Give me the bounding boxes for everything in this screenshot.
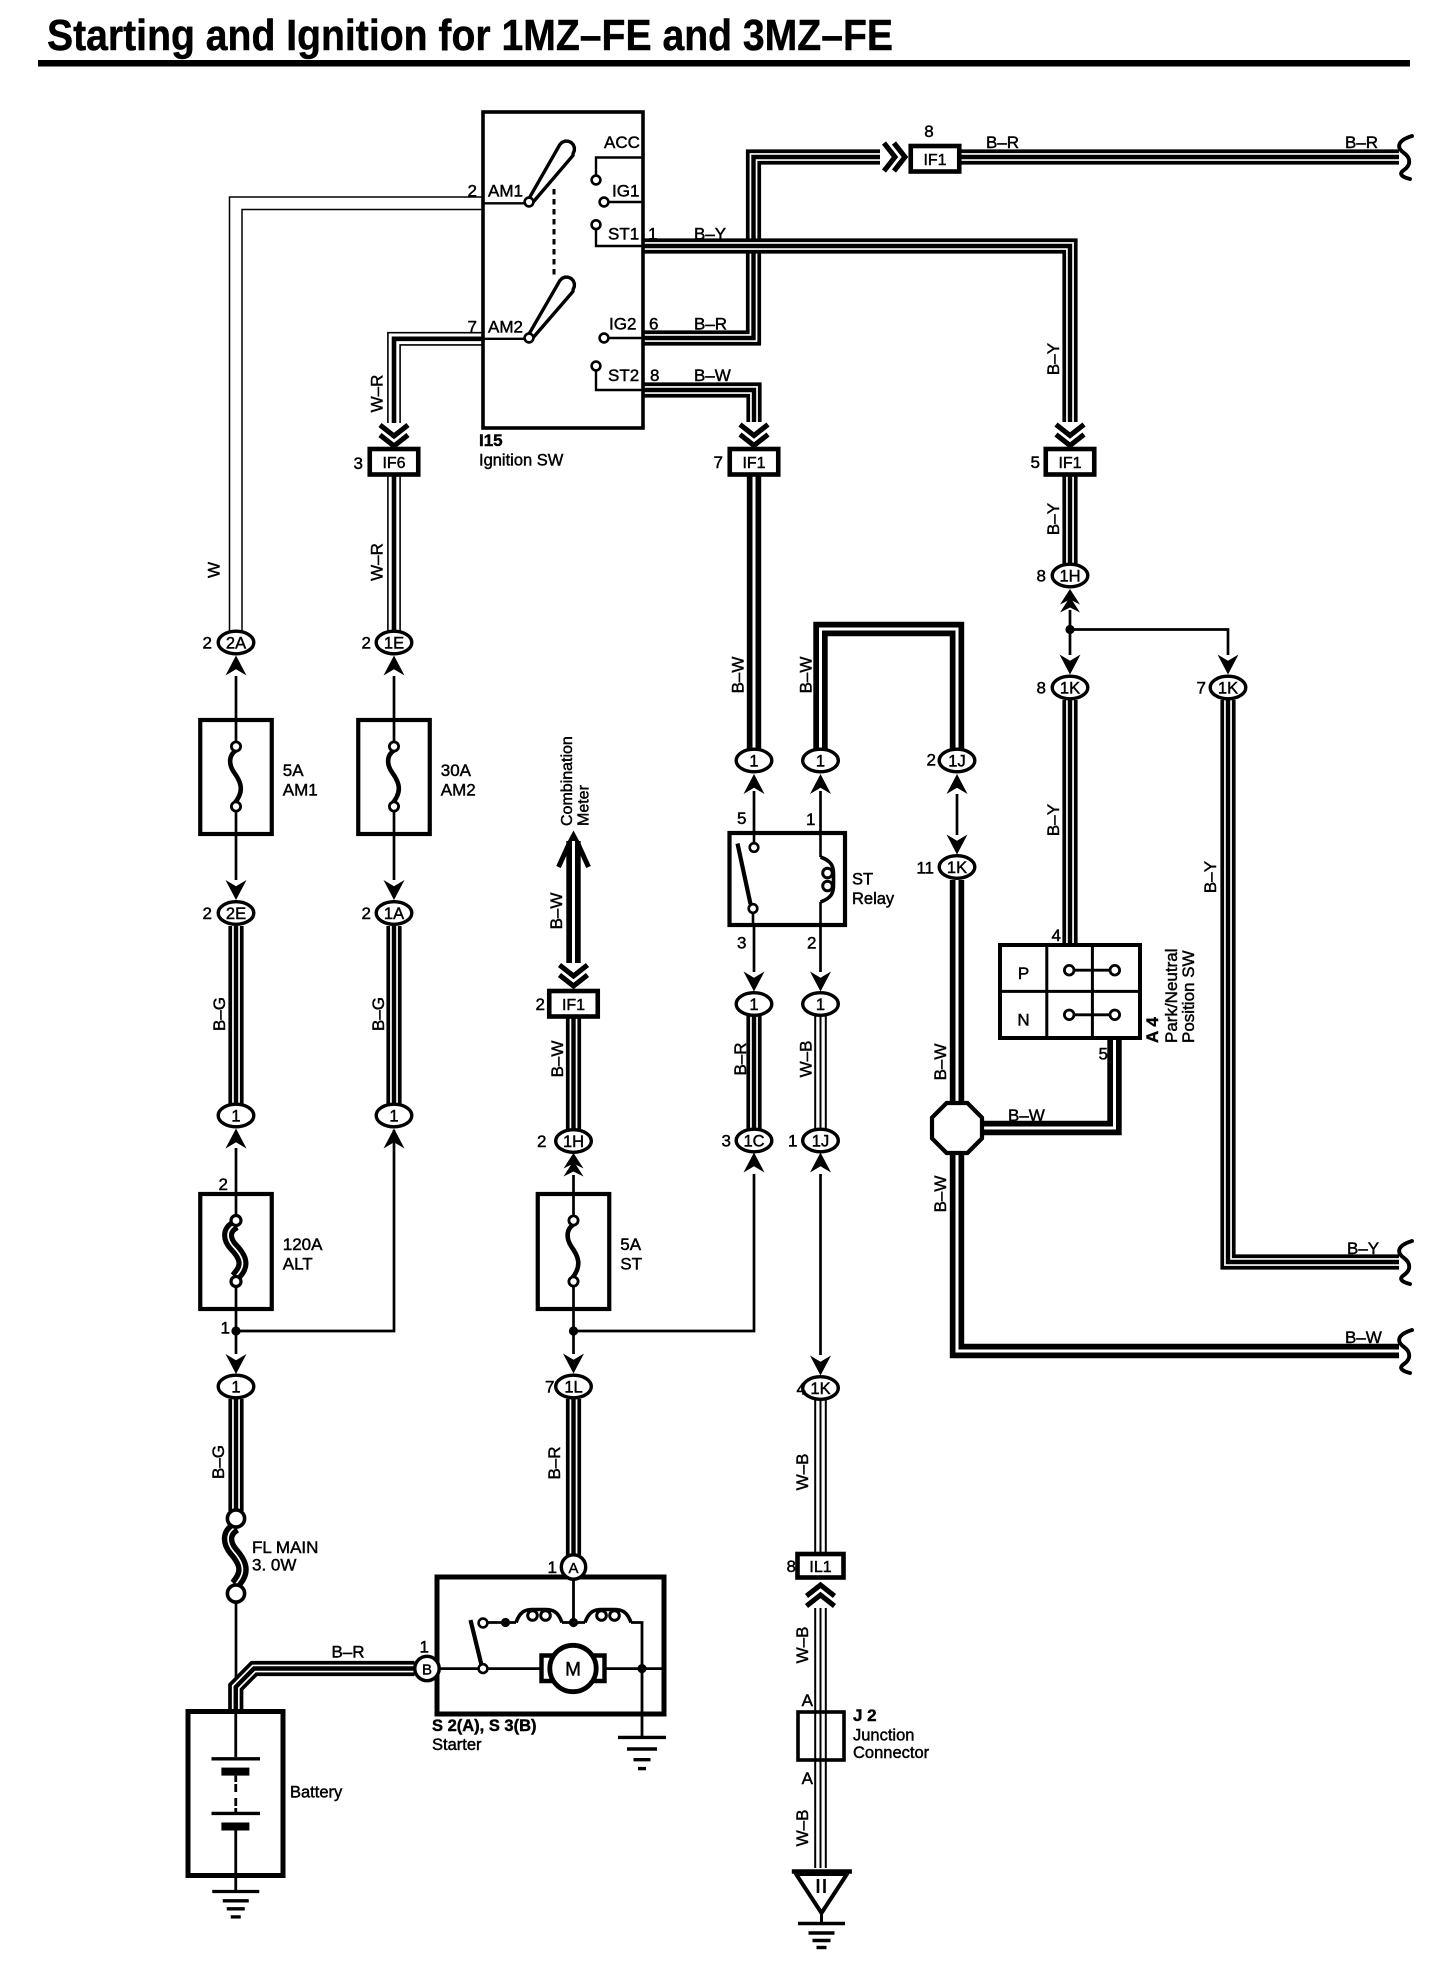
- wire from FL MAIN to battery: [235, 1601, 238, 1712]
- svg-text:IF1: IF1: [923, 152, 946, 169]
- svg-text:Connector: Connector: [853, 1744, 930, 1762]
- svg-text:ST2: ST2: [608, 366, 639, 385]
- svg-text:3: 3: [354, 454, 363, 473]
- svg-text:1: 1: [749, 753, 758, 771]
- wire B-W from ignition switch ST2 pin 8 to junction connector IF1: [643, 387, 768, 446]
- svg-text:11: 11: [916, 859, 934, 878]
- connector 1 (relay pin 3 bottom): [736, 993, 772, 1016]
- arrow into connector 1K pin 8: [1060, 655, 1081, 675]
- fuse 120A ALT: [200, 1194, 323, 1309]
- wire from connector 1 to fuse 120A ALT: [219, 1148, 236, 1194]
- wire from fuse 5A ST to connector 1H: [572, 1175, 575, 1194]
- svg-text:5A: 5A: [620, 1235, 641, 1254]
- connector 1 (B-W right): [803, 749, 839, 772]
- svg-text:Starting and Ignition for 1MZ–: Starting and Ignition for 1MZ–FE and 3MZ…: [47, 11, 893, 60]
- svg-text:1H: 1H: [563, 1133, 584, 1151]
- svg-text:2: 2: [807, 934, 816, 953]
- arrow into connector 1 (coil branch): [810, 774, 831, 794]
- arrow into connector 1J pin 1: [810, 1153, 831, 1173]
- fusible link FL MAIN 3.0W: [227, 1510, 318, 1602]
- arrow into connector 1 below ALT junction: [226, 1354, 247, 1374]
- svg-text:B–W: B–W: [931, 1044, 950, 1081]
- torn wire end B-R: [1399, 136, 1412, 179]
- svg-text:B–W: B–W: [797, 657, 816, 694]
- svg-text:5A: 5A: [283, 761, 304, 780]
- svg-text:B–R: B–R: [694, 315, 727, 334]
- svg-text:8: 8: [787, 1557, 796, 1576]
- arrow into connector 1C: [744, 1153, 765, 1173]
- arrow into connector 1 (ALT column): [226, 1129, 247, 1149]
- connector 1E: [362, 631, 412, 654]
- svg-text:1: 1: [231, 1379, 240, 1397]
- wire B-R from IF1 to right edge: [959, 133, 1399, 160]
- connector 1J pin 1: [788, 1129, 838, 1152]
- torn wire end B-W: [1399, 1330, 1412, 1373]
- wire W from ignition switch AM1 pin 2 to connector 2A: [205, 197, 484, 630]
- svg-text:AM1: AM1: [488, 182, 523, 201]
- svg-text:1: 1: [788, 1132, 797, 1151]
- svg-text:8: 8: [1037, 679, 1046, 698]
- battery: [188, 1712, 343, 1877]
- connector 1K pin 4: [797, 1377, 839, 1400]
- arrow into connector 1 (AM2 column): [384, 1129, 405, 1149]
- svg-text:B–R: B–R: [545, 1446, 564, 1479]
- starter S2(A) S3(B): [432, 1577, 664, 1754]
- svg-text:2: 2: [362, 904, 371, 923]
- svg-text:B–G: B–G: [210, 997, 229, 1031]
- wire W-B from IL1 through junction connector J2 to ground: [793, 1608, 826, 1868]
- connector 1H pin 2: [537, 1130, 591, 1153]
- park/neutral position switch A4: [1000, 926, 1198, 1064]
- fuse 5A ST: [538, 1194, 642, 1309]
- svg-text:ST1: ST1: [608, 225, 639, 244]
- svg-text:1: 1: [648, 225, 657, 244]
- svg-text:A: A: [802, 1769, 814, 1788]
- svg-text:B–W: B–W: [1008, 1106, 1045, 1125]
- svg-text:Combination: Combination: [559, 736, 576, 826]
- wire W-B from connector 1 to connector 1J: [797, 1016, 826, 1129]
- svg-text:1: 1: [221, 1319, 230, 1338]
- svg-text:5: 5: [1031, 453, 1040, 472]
- arrow into connector 2E: [226, 835, 247, 900]
- wire B-W from octagon junction to right edge: [931, 1151, 1399, 1351]
- svg-text:FL MAIN: FL MAIN: [252, 1538, 318, 1557]
- svg-text:7: 7: [545, 1378, 554, 1397]
- svg-text:5: 5: [1099, 1045, 1108, 1064]
- combination meter arrow wire B-W: [547, 736, 593, 986]
- svg-text:B: B: [422, 1662, 432, 1679]
- svg-text:6: 6: [649, 315, 658, 334]
- svg-text:1K: 1K: [947, 859, 967, 877]
- wire from ST relay pin 3: [753, 925, 756, 972]
- svg-text:N: N: [1017, 1011, 1029, 1030]
- connector 1K pin 8: [1037, 676, 1088, 699]
- svg-text:B–R: B–R: [1345, 133, 1378, 152]
- svg-text:B–R: B–R: [986, 133, 1019, 152]
- torn wire end B-Y: [1399, 1241, 1412, 1284]
- svg-text:4: 4: [797, 1380, 806, 1399]
- svg-text:IG1: IG1: [612, 182, 639, 201]
- svg-text:AM2: AM2: [488, 318, 523, 337]
- svg-text:1H: 1H: [1059, 568, 1080, 586]
- svg-text:ACC: ACC: [604, 133, 640, 152]
- arrow into connector 2A: [226, 656, 247, 721]
- chevron arrow into junction connector IL1: [807, 1585, 835, 1606]
- svg-text:B–Y: B–Y: [1044, 503, 1063, 535]
- svg-text:1K: 1K: [1060, 680, 1080, 698]
- svg-text:2A: 2A: [226, 635, 246, 653]
- wire from connector 1H to junction node: [1069, 610, 1072, 655]
- junction connector J2: [798, 1706, 930, 1762]
- junction connector IL1 pin 8: [787, 1554, 844, 1578]
- wire from connector 1J to connector 1K: [819, 1174, 822, 1355]
- wire W-B from connector 1K to junction connector IL1: [793, 1400, 826, 1552]
- svg-text:1J: 1J: [812, 1133, 829, 1151]
- svg-text:2: 2: [219, 1175, 228, 1194]
- svg-text:1: 1: [816, 753, 825, 771]
- svg-text:ST: ST: [852, 871, 873, 889]
- svg-text:J 2: J 2: [853, 1706, 877, 1725]
- junction connector IF1 pin 8: [911, 122, 960, 172]
- connector 1K pin 7: [1197, 676, 1246, 699]
- junction connector IF1 pin 7: [714, 449, 779, 475]
- svg-text:IF6: IF6: [382, 455, 405, 472]
- svg-text:B–W: B–W: [729, 657, 748, 694]
- svg-text:Position SW: Position SW: [1179, 950, 1198, 1043]
- wire B-G from connector 1 to fusible link FL MAIN: [209, 1399, 239, 1511]
- svg-text:B–W: B–W: [694, 366, 731, 385]
- wire B-Y from connector 1K to right edge: [1201, 700, 1399, 1265]
- double arrow into connector 1H pin 8: [1060, 589, 1080, 613]
- arrow into connector 1J pin 2: [947, 774, 968, 794]
- svg-text:1A: 1A: [384, 905, 404, 923]
- svg-text:AM2: AM2: [441, 781, 476, 800]
- connector 1 (ALT top): [218, 1104, 254, 1127]
- connector 2E: [203, 902, 254, 925]
- ST relay: [730, 809, 895, 953]
- svg-text:1K: 1K: [810, 1380, 830, 1398]
- svg-text:IG2: IG2: [609, 315, 636, 334]
- svg-text:ALT: ALT: [283, 1255, 313, 1274]
- wire from junction node to connector 1K pin 7: [1070, 630, 1228, 656]
- svg-text:1C: 1C: [743, 1133, 764, 1151]
- svg-text:1: 1: [806, 810, 815, 829]
- wire B-R from connector 1L to starter terminal A: [545, 1399, 577, 1555]
- svg-text:1L: 1L: [564, 1379, 582, 1397]
- svg-text:2: 2: [362, 634, 371, 653]
- svg-text:A 4: A 4: [1143, 1017, 1162, 1043]
- svg-text:2: 2: [468, 182, 477, 201]
- svg-text:W–B: W–B: [793, 1454, 812, 1491]
- svg-text:3: 3: [737, 934, 746, 953]
- connector 1J pin 2: [927, 749, 975, 772]
- svg-text:IF1: IF1: [1058, 455, 1081, 472]
- svg-text:A: A: [802, 1691, 814, 1710]
- wire B-W from IF1 to connector 1: [729, 474, 755, 749]
- arrow into connector 1 (IF1 B-W branch): [744, 774, 765, 794]
- wire B-W from connector 1K to octagon junction: [931, 880, 957, 1105]
- svg-text:8: 8: [924, 122, 933, 141]
- body ground II: [792, 1872, 852, 1948]
- wire to ST relay pin 5: [753, 791, 756, 833]
- svg-text:B–R: B–R: [731, 1042, 750, 1075]
- junction dot below fuse ST: [569, 1326, 578, 1335]
- svg-text:8: 8: [1037, 567, 1046, 586]
- arrow into connector 1K pin 4: [810, 1356, 831, 1376]
- svg-text:M: M: [565, 1660, 581, 1681]
- svg-text:30A: 30A: [441, 761, 472, 780]
- starter ground: [618, 1669, 666, 1769]
- title: [38, 11, 1410, 67]
- wire B-W from octagon junction to park/neutral position switch pin 5: [982, 1038, 1115, 1128]
- svg-text:B–Y: B–Y: [1347, 1239, 1379, 1258]
- wire from fuse 120A ALT to junction: [221, 1309, 236, 1354]
- octagon junction: [932, 1103, 982, 1153]
- svg-text:7: 7: [1197, 679, 1206, 698]
- wire B-R from connector 1 to connector 1C: [731, 1016, 757, 1129]
- svg-text:S 2(A), S 3(B): S 2(A), S 3(B): [432, 1717, 537, 1735]
- starter terminal A: [548, 1555, 586, 1579]
- svg-text:3. 0W: 3. 0W: [252, 1556, 296, 1575]
- wire from connector 1C to ST fuse junction: [574, 1174, 755, 1331]
- arrow into connector 1 (relay pin 2): [810, 972, 831, 992]
- connector 1 (B-W left): [736, 749, 772, 772]
- svg-text:B–Y: B–Y: [1044, 343, 1063, 375]
- svg-text:1: 1: [420, 1638, 429, 1657]
- svg-text:1: 1: [231, 1108, 240, 1126]
- wire to ST relay pin 1: [819, 791, 822, 833]
- connector 1K pin 11: [916, 856, 974, 879]
- svg-text:W–B: W–B: [797, 1041, 816, 1078]
- svg-text:W–R: W–R: [368, 543, 387, 581]
- svg-text:B–G: B–G: [209, 1445, 228, 1479]
- wire B-W from connector 1 to connector 1J: [797, 629, 958, 749]
- wire B-Y from ignition switch ST1 pin 1 to junction connector IF1: [643, 243, 1084, 446]
- svg-text:2: 2: [927, 751, 936, 770]
- svg-text:1J: 1J: [948, 753, 965, 771]
- svg-text:W–B: W–B: [793, 1810, 812, 1847]
- svg-text:B–R: B–R: [331, 1643, 364, 1662]
- fuse 30A AM2: [358, 720, 475, 834]
- svg-text:Relay: Relay: [852, 890, 895, 908]
- svg-text:Junction: Junction: [853, 1727, 914, 1745]
- junction dot below fuse ALT: [231, 1326, 240, 1335]
- svg-text:B–Y: B–Y: [1044, 804, 1063, 836]
- svg-text:2: 2: [203, 634, 212, 653]
- svg-text:Meter: Meter: [576, 784, 593, 826]
- arrow into connector 1A: [384, 835, 405, 900]
- svg-text:8: 8: [650, 366, 659, 385]
- junction connector IF6 pin 3: [354, 449, 419, 475]
- svg-text:B–G: B–G: [369, 997, 388, 1031]
- wire B-G from connector 1A to connector 1: [369, 926, 397, 1104]
- svg-text:120A: 120A: [283, 1235, 323, 1254]
- svg-text:1K: 1K: [1218, 680, 1238, 698]
- svg-text:B–W: B–W: [931, 1176, 950, 1213]
- svg-text:2: 2: [537, 1132, 546, 1151]
- svg-text:4: 4: [1052, 926, 1061, 945]
- ignition switch I15: [468, 112, 731, 470]
- arrow into connector 1K pin 11: [947, 835, 968, 855]
- wire B-G from connector 2E to connector 1: [210, 926, 239, 1104]
- svg-text:7: 7: [468, 318, 477, 337]
- svg-text:I15: I15: [479, 431, 503, 450]
- svg-text:W–R: W–R: [368, 375, 387, 413]
- svg-text:W: W: [205, 562, 224, 578]
- svg-text:B–Y: B–Y: [694, 225, 726, 244]
- connector 1L pin 7: [545, 1375, 591, 1398]
- wire W-R from ignition switch AM2 pin 7 to junction connector IF6: [368, 333, 484, 446]
- svg-text:B–W: B–W: [548, 1041, 567, 1078]
- connector 1 (ALT bottom): [218, 1375, 254, 1398]
- svg-text:3: 3: [722, 1132, 731, 1151]
- wire B-R from battery to starter terminal B: [233, 1643, 415, 1713]
- wire from ST fuse to junction and connector 1L: [572, 1309, 575, 1354]
- junction connector IF1 pin 2: [536, 991, 598, 1017]
- svg-text:1E: 1E: [384, 635, 404, 653]
- wire B-Y from IF1 to connector 1H: [1044, 474, 1073, 564]
- svg-text:IL1: IL1: [809, 1559, 831, 1576]
- svg-text:1: 1: [749, 996, 758, 1014]
- wire B-W from IF1 to connector 1H (combination meter branch): [548, 1016, 577, 1130]
- svg-text:Starter: Starter: [432, 1736, 482, 1754]
- svg-text:A: A: [568, 1560, 578, 1577]
- wire B-Y from connector 1K to park/neutral position switch pin 4: [1044, 700, 1073, 944]
- connector 1C pin 3: [722, 1129, 772, 1152]
- svg-text:B–Y: B–Y: [1201, 861, 1220, 893]
- arrow into connector 1 (relay pin 3): [744, 972, 765, 992]
- svg-text:2: 2: [536, 995, 545, 1014]
- wire from ST relay pin 2: [819, 925, 822, 972]
- svg-text:ST: ST: [620, 1255, 642, 1274]
- svg-text:2E: 2E: [226, 905, 246, 923]
- connector 1H pin 8: [1037, 564, 1088, 587]
- connector 1 (AM2 bottom): [376, 1104, 412, 1127]
- svg-text:P: P: [1018, 964, 1029, 983]
- battery ground: [212, 1876, 259, 1917]
- double arrow into connector 1H pin 2: [564, 1153, 584, 1177]
- svg-text:IF1: IF1: [742, 455, 765, 472]
- svg-text:5: 5: [737, 809, 746, 828]
- svg-text:2: 2: [203, 904, 212, 923]
- wire B-R from ignition switch IG2 pin 6 to junction connector IF1: [643, 143, 905, 341]
- junction node dot: [1065, 625, 1074, 634]
- svg-text:1: 1: [816, 996, 825, 1014]
- connector 1 (relay pin 2 bottom): [803, 993, 839, 1016]
- svg-text:Ignition SW: Ignition SW: [479, 452, 564, 470]
- wire W-R from IF6 to connector 1E: [368, 475, 401, 631]
- fuse 5A AM1: [200, 720, 317, 834]
- svg-text:W–B: W–B: [793, 1627, 812, 1664]
- svg-text:Battery: Battery: [290, 1784, 343, 1802]
- connector 2A: [203, 631, 254, 654]
- arrow into connector 1L: [563, 1354, 584, 1374]
- svg-text:IF1: IF1: [562, 997, 585, 1014]
- svg-text:7: 7: [714, 453, 723, 472]
- svg-text:B–W: B–W: [1345, 1328, 1382, 1347]
- svg-text:1: 1: [389, 1108, 398, 1126]
- svg-text:1: 1: [548, 1558, 557, 1577]
- connector 1A: [362, 902, 412, 925]
- svg-text:B–W: B–W: [547, 893, 566, 930]
- arrow into connector 1K pin 7: [1218, 655, 1239, 675]
- svg-text:AM1: AM1: [283, 781, 318, 800]
- junction connector IF1 pin 5: [1031, 449, 1095, 475]
- starter terminal B: [415, 1638, 439, 1681]
- wire from junction to connector 1 (AM2 branch): [236, 1130, 394, 1331]
- arrow into connector 1E: [384, 656, 405, 721]
- wire from connector 1J to connector 1K pin 11: [956, 794, 959, 835]
